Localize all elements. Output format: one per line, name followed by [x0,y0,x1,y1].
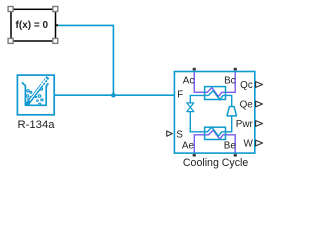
svg-text:Pwr: Pwr [236,119,254,130]
output arrow Qe [256,101,263,107]
output arrow W [256,140,263,146]
svg-text:W: W [243,139,253,150]
input arrow port S [167,131,173,136]
junction [111,93,116,98]
svg-text:Qc: Qc [240,80,253,91]
svg-text:Ac: Ac [183,76,195,87]
svg-text:S: S [176,130,183,141]
selection handle bottom-right [53,38,58,43]
moist air line Ac to condenser [194,72,235,97]
expansion valve [187,103,194,112]
svg-text:R-134a: R-134a [17,119,55,131]
moist air line Ae to evaporator [194,130,235,153]
svg-text:Bc: Bc [224,76,236,87]
bubbles [27,90,29,92]
two-phase fluid properties block R-134a [17,75,54,115]
svg-text:Be: Be [224,141,237,152]
output arrow Pwr [256,121,263,127]
output arrow Qc [256,82,263,88]
svg-text:Ae: Ae [182,141,195,152]
compressor [227,107,237,116]
port marker Ae [193,154,196,157]
svg-text:f(x) = 0: f(x) = 0 [16,20,49,31]
port marker Be [234,154,237,157]
condenser box [205,87,226,100]
subsystem Cooling Cycle [174,72,254,154]
two-phase refrigerant loop left (condenser - valve - evaporator) [190,91,231,136]
solver configuration block f(x)=0 [11,9,56,41]
selection handle top-right [53,7,58,12]
wire from solver block to junction [58,25,113,95]
svg-text:Qe: Qe [240,100,254,111]
selection handle top-left [8,7,13,12]
port marker Bc [234,68,237,71]
evaporator box [205,127,226,139]
beaker outline [22,82,48,105]
thermometer [26,77,48,106]
wire R-134a to Cooling Cycle port F [54,94,174,96]
port square on solver block [56,24,58,26]
port marker Ac [193,68,196,71]
svg-text:Cooling Cycle: Cooling Cycle [183,157,248,169]
svg-text:F: F [177,90,183,101]
selection handle bottom-left [8,38,13,43]
